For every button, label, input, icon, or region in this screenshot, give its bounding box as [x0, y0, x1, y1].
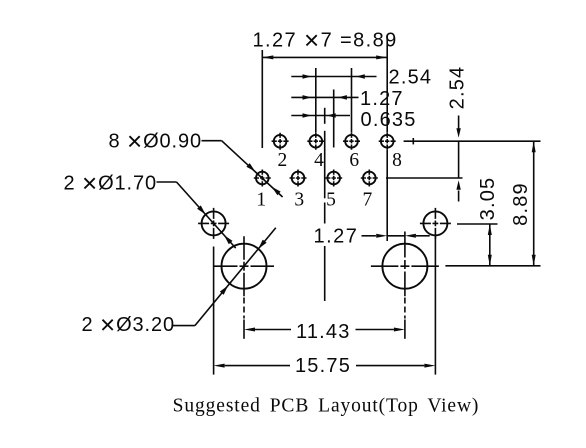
svg-text:4: 4	[314, 150, 324, 171]
reference line mounting hole row extending right	[457, 223, 498, 225]
svg-text:8 ×Ø0.90: 8 ×Ø0.90	[109, 126, 203, 156]
extension tick left post hole column	[243, 320, 245, 339]
dimension connector between pin rows	[458, 141, 460, 178]
svg-text:15.75: 15.75	[295, 355, 351, 377]
post hole left (3.20 dia)	[222, 244, 267, 289]
svg-text:1.27 ×7 =8.89: 1.27 ×7 =8.89	[253, 25, 398, 55]
svg-text:2: 2	[278, 150, 288, 171]
svg-text:3.05: 3.05	[477, 177, 499, 221]
extension line pin6 column	[351, 68, 353, 133]
dimension 0.635 between pin4 column and centerline	[291, 115, 350, 117]
extension line pin8 column lower	[386, 150, 388, 241]
extension line right mounting hole column	[434, 236, 436, 375]
svg-text:2.54: 2.54	[447, 66, 469, 110]
svg-text:6: 6	[349, 150, 359, 171]
pin hole 5 (0.90 dia)	[327, 172, 340, 185]
post hole right (3.20 dia)	[382, 244, 427, 289]
pin hole 4 (0.90 dia)	[310, 135, 323, 148]
mounting hole right (1.70 dia)	[423, 211, 447, 235]
svg-text:3: 3	[294, 190, 304, 211]
dimension line 8.89 span	[262, 56, 387, 58]
pin hole 3 (0.90 dia)	[292, 172, 305, 185]
extension tick right post hole column	[404, 320, 406, 339]
pin hole 7 (0.90 dia)	[363, 172, 376, 185]
pin hole 2 (0.90 dia)	[274, 135, 287, 148]
centerline of connector (dashed)	[324, 108, 326, 124]
pin hole 1 (0.90 dia)	[256, 172, 269, 185]
extension line pin4 column	[315, 68, 317, 133]
reference line pin7 row extending right	[386, 177, 463, 179]
svg-text:2 ×Ø3.20: 2 ×Ø3.20	[82, 310, 176, 340]
svg-text:7: 7	[363, 190, 373, 211]
svg-text:1.27: 1.27	[360, 88, 404, 110]
reference line pin8 row extending right	[404, 140, 541, 142]
svg-text:8: 8	[392, 150, 402, 171]
pin hole 6 (0.90 dia)	[345, 135, 358, 148]
dimension 11.43 between post hole columns	[243, 298, 245, 319]
extension line pin5 column	[333, 90, 335, 148]
svg-text:1: 1	[256, 190, 266, 211]
pin hole 8 (0.90 dia)	[381, 135, 394, 148]
svg-text:2.54: 2.54	[389, 67, 433, 89]
svg-text:8.89: 8.89	[510, 182, 532, 226]
dimension 1.27 between pin4 and pin5 columns	[291, 96, 358, 98]
svg-text:2 ×Ø1.70: 2 ×Ø1.70	[64, 168, 158, 198]
svg-text:1.27: 1.27	[314, 226, 359, 248]
dimension 2.54 between pin4 and pin6 columns	[291, 76, 376, 78]
svg-text:5: 5	[326, 190, 336, 211]
reference line post hole row extending right	[445, 265, 540, 267]
extension line left mounting hole column	[213, 247, 215, 375]
svg-text:0.635: 0.635	[361, 109, 417, 131]
svg-text:Suggested PCB Layout(Top View): Suggested PCB Layout(Top View)	[173, 396, 480, 417]
svg-text:11.43: 11.43	[296, 321, 351, 343]
mounting hole left (1.70 dia)	[202, 211, 226, 235]
extension line pin1 column	[261, 50, 263, 148]
small tick on pin8 row line	[412, 138, 414, 144]
extension line pin8 column upper	[386, 35, 388, 133]
